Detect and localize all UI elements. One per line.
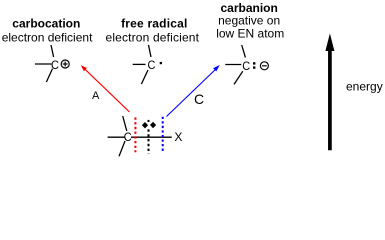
carbanion: bond left (225, 64, 241, 66)
carbocation: plus charge symbol (61, 60, 69, 68)
svg-text:C: C (51, 58, 59, 72)
svg-text:C: C (124, 130, 132, 144)
free radical: unpaired electron dot (160, 62, 162, 64)
svg-text:X: X (174, 130, 182, 144)
carbocation: bond up (51, 45, 54, 57)
carbanion: lone pair dot upper (253, 62, 255, 64)
substrate: C-X bond (131, 136, 172, 138)
svg-text:low EN atom: low EN atom (216, 26, 284, 40)
substrate: bond left (108, 136, 125, 138)
svg-text:A: A (92, 90, 100, 102)
svg-text:carbocation: carbocation (12, 17, 80, 31)
free radical: bond up (149, 45, 152, 57)
svg-text:electron deficient: electron deficient (106, 30, 200, 44)
cleavage line blue (heterolytic to carbanion) (162, 117, 164, 151)
cleavage line black (homolytic), dot above diamonds (148, 120, 150, 122)
substrate: bonding electron diamond right (150, 122, 156, 128)
carbanion: minus charge symbol (260, 62, 268, 70)
carbanion structure (225, 45, 245, 84)
svg-text:free radical: free radical (121, 17, 187, 31)
substrate structure (C-X) (108, 116, 172, 156)
svg-text:electron deficient: electron deficient (2, 30, 93, 44)
energy axis arrow (325, 33, 334, 150)
carbanion: bond up (242, 45, 246, 57)
free radical structure (133, 45, 151, 84)
free radical: bond left (133, 63, 146, 65)
carbocation: bond left (35, 63, 52, 65)
arrow A (red, to carbocation) (81, 65, 130, 112)
svg-text:C: C (148, 58, 156, 72)
substrate: bond up (123, 116, 127, 131)
carbocation structure (35, 45, 54, 82)
cleavage line black (homolytic), lower part (148, 129, 150, 153)
svg-text:C: C (242, 59, 250, 73)
carbanion: bond down-left (234, 71, 243, 84)
arrow C (blue, to carbanion) (167, 65, 220, 117)
carbanion: lone pair dot lower (253, 66, 255, 68)
svg-text:energy: energy (346, 79, 383, 93)
substrate: bonding electron diamond left (142, 122, 148, 128)
free radical: bond down-left (141, 70, 148, 84)
carbocation: bond down-left (46, 69, 52, 82)
substrate: bond down-left (119, 141, 125, 156)
svg-text:C: C (194, 91, 204, 107)
cleavage line red (heterolytic to carbocation) (134, 117, 136, 152)
